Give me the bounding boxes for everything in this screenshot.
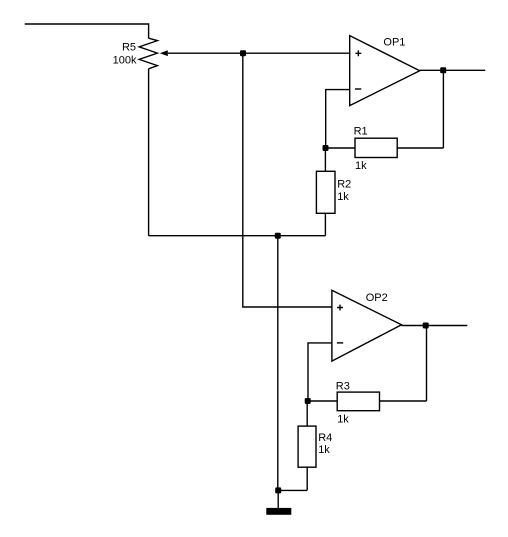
wire OP2 inverting input <box>308 343 332 401</box>
op-amp OP1 plus symbol <box>355 50 361 56</box>
wire R4 bottom lead <box>306 467 308 490</box>
resistor R1 body <box>355 138 397 157</box>
wire R3 right <box>380 400 427 402</box>
op-amp OP2 minus symbol <box>337 342 343 344</box>
wire R2 top lead <box>324 148 326 171</box>
potentiometer R5 wiper arrow <box>160 50 168 56</box>
svg-text:R1: R1 <box>354 126 368 138</box>
wire ground stub <box>277 490 279 508</box>
resistor R4 body <box>298 426 316 467</box>
svg-text:OP1: OP1 <box>383 37 405 49</box>
svg-text:R4: R4 <box>318 432 332 444</box>
node ground junction <box>275 487 281 493</box>
node OP1 output junction <box>440 67 446 73</box>
node ground net junction <box>275 233 281 239</box>
wire bottom horizontal net <box>149 235 326 237</box>
wire junction down to OP2 + input <box>243 53 332 307</box>
wire wiper to OP1 + input <box>168 52 350 54</box>
wire top input <box>25 24 149 38</box>
wire R4 to ground node <box>278 489 307 491</box>
wire R2 bottom lead <box>324 213 326 235</box>
svg-text:R5: R5 <box>122 42 136 54</box>
op-amp OP2 triangle <box>332 290 402 361</box>
svg-text:R2: R2 <box>337 178 351 190</box>
wire OP1 feedback vertical <box>442 70 444 148</box>
svg-text:1k: 1k <box>337 191 349 203</box>
svg-text:OP2: OP2 <box>366 292 388 304</box>
resistor R2 body <box>316 171 335 213</box>
wire OP1 inverting input <box>326 90 350 148</box>
wire R4 top lead <box>306 401 308 426</box>
wire to R1 left <box>326 147 356 149</box>
wire ground net vertical <box>277 236 279 491</box>
wire R5 bottom lead <box>148 69 150 236</box>
op-amp OP2 plus symbol <box>337 305 343 311</box>
potentiometer R5 body <box>139 38 157 69</box>
wire OP2 feedback vertical <box>426 326 428 402</box>
wire OP2 output <box>402 325 468 327</box>
svg-text:1k: 1k <box>318 444 330 456</box>
svg-text:R3: R3 <box>336 381 350 393</box>
op-amp OP1 triangle <box>350 36 420 106</box>
op-amp OP1 minus symbol <box>355 88 361 90</box>
svg-text:1k: 1k <box>337 414 349 426</box>
resistor R3 body <box>337 392 379 411</box>
wire OP1 output <box>420 69 486 71</box>
svg-text:1k: 1k <box>355 160 367 172</box>
svg-text:100k: 100k <box>113 55 137 67</box>
wire to R3 left <box>308 400 338 402</box>
node OP2 output junction <box>423 323 429 329</box>
node OP1 feedback junction <box>323 145 329 151</box>
node OP2 feedback junction <box>305 398 311 404</box>
node wiper junction <box>240 50 246 56</box>
wire R1 right <box>397 147 443 149</box>
ground <box>266 508 291 515</box>
